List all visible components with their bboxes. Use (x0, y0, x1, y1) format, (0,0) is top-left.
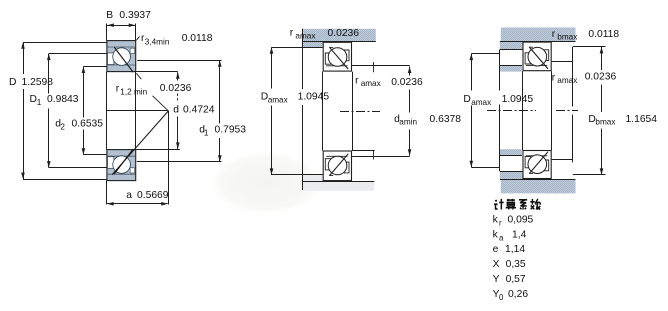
svg-text:amax: amax (268, 96, 288, 105)
svg-text:amin: amin (399, 118, 417, 127)
wire: a extension right (168, 111, 170, 205)
d1 shoulder extension lines (137, 60, 221, 62)
shaft band top (blue) (500, 28, 576, 50)
svg-text:2: 2 (60, 122, 65, 131)
contact line lower section to apex P (112, 111, 168, 175)
dimension D 1.2598 (23, 42, 25, 74)
svg-text:1: 1 (37, 98, 42, 107)
housing shoulder slivers (blue) (500, 65, 522, 71)
svg-text:0.0118: 0.0118 (588, 29, 619, 40)
bore lines extending right (136, 71, 178, 73)
bore line (bottom) extending right (352, 150, 375, 152)
dimension d_amin 0.6378 (408, 67, 412, 74)
shaft surface line (top) (500, 41, 576, 43)
wire: OD silhouette right (135, 72, 137, 150)
svg-text:0: 0 (499, 293, 504, 302)
wire: a extension left (106, 181, 108, 205)
svg-text:Y: Y (493, 274, 500, 285)
dimension d1 0.7953 (219, 60, 221, 123)
dimension d 0.4724 (176, 72, 180, 79)
svg-text:X: X (493, 259, 500, 270)
svg-text:0.3937: 0.3937 (119, 10, 151, 21)
svg-text:0.9843: 0.9843 (47, 94, 79, 105)
svg-text:amax: amax (361, 79, 381, 88)
shaft band bottom (blue) (500, 171, 576, 193)
bearing section upper (left drawing) (107, 41, 136, 73)
svg-text:B: B (106, 10, 113, 21)
housing shoulder face vertical (302, 29, 304, 89)
housing block with shoulder (top, blue) (302, 29, 376, 48)
dimension D_bmax 1.1654 (573, 46, 606, 48)
r_a fillet ticks (373, 62, 375, 72)
shaft face vertical (572, 47, 574, 107)
dimension a 0.5669 (107, 203, 168, 205)
wire: B extension left (106, 24, 108, 41)
svg-text:0.6378: 0.6378 (430, 114, 462, 125)
bearing section upper (middle drawing) (323, 42, 351, 71)
svg-text:0.0236: 0.0236 (328, 28, 360, 39)
svg-text:0.0236: 0.0236 (160, 83, 192, 94)
wire: silhouette right (right drawing) (551, 71, 553, 150)
shoulder face vertical (right drawing left side) (499, 50, 501, 91)
svg-text:r: r (499, 218, 502, 227)
dimension d2 0.6535 (83, 67, 85, 118)
svg-text:0,095: 0,095 (508, 214, 534, 225)
svg-text:0.4724: 0.4724 (183, 104, 215, 115)
svg-text:0,26: 0,26 (508, 289, 528, 300)
svg-text:d: d (173, 104, 179, 115)
shaft surface line (bottom) (500, 179, 576, 181)
shaft shoulder lines right (352, 65, 410, 67)
svg-text:r: r (552, 29, 556, 40)
label r1,2 min 0.0236 with leaders (136, 73, 141, 79)
svg-text:1: 1 (204, 129, 209, 138)
centerline (middle) (340, 111, 380, 113)
svg-text:1.1654: 1.1654 (626, 114, 658, 125)
wire: bore silhouette left (106, 72, 108, 150)
svg-text:0.7953: 0.7953 (215, 125, 247, 136)
shaft shoulder bottom edge (500, 49, 523, 51)
svg-text:bmax: bmax (557, 32, 577, 41)
wire: silhouette left (right drawing) (522, 71, 524, 150)
svg-text:0,57: 0,57 (506, 274, 526, 285)
svg-text:a: a (126, 190, 132, 201)
housing block pale (bottom) (302, 175, 374, 191)
dimension D_amax 1.0945 (right) (471, 54, 473, 91)
svg-text:r: r (290, 28, 294, 39)
bearing section lower (middle drawing) (323, 151, 351, 181)
housing bore line (bottom) (302, 181, 374, 183)
bearing section lower (left drawing) (107, 149, 136, 181)
svg-text:1,2 min: 1,2 min (120, 87, 147, 96)
svg-text:e: e (493, 244, 499, 255)
wire: OD silhouette right (middle) (352, 72, 354, 151)
svg-text:k: k (493, 214, 499, 225)
wire: bore silhouette left (middle) (322, 72, 324, 151)
wire: B extension right (135, 24, 137, 41)
svg-text:0.0118: 0.0118 (182, 33, 213, 44)
svg-text:1.0945: 1.0945 (502, 94, 534, 105)
svg-text:amax: amax (471, 98, 491, 107)
svg-text:0.5669: 0.5669 (137, 190, 169, 201)
svg-text:1.0945: 1.0945 (298, 92, 330, 103)
centerline / contact apex line (107, 110, 169, 112)
housing bore line (top) (302, 41, 376, 43)
svg-text:1,14: 1,14 (505, 244, 525, 255)
faint watermark blob (227, 191, 299, 214)
bearing section lower (right drawing) (523, 151, 551, 179)
bearing section upper (right drawing) (523, 42, 551, 71)
dimension D_amax 1.0945 (middle) (271, 47, 273, 88)
table: calculation factors (Chinese title drawn as strokes) (494, 199, 540, 210)
svg-text:amax: amax (557, 76, 577, 85)
dimension D1 0.9843 (48, 54, 50, 94)
svg-text:0.6535: 0.6535 (72, 119, 104, 130)
centerline (right drawing) (487, 110, 536, 112)
svg-text:r: r (116, 84, 120, 95)
svg-text:0.0236: 0.0236 (585, 72, 617, 83)
svg-text:D: D (9, 77, 16, 88)
svg-text:1,4: 1,4 (512, 229, 527, 240)
svg-text:k: k (493, 229, 499, 240)
svg-text:r: r (552, 72, 556, 83)
dimension B 0.3937 (107, 25, 136, 27)
svg-text:0,35: 0,35 (506, 259, 526, 270)
svg-text:0.0236: 0.0236 (391, 77, 423, 88)
svg-text:3,4min: 3,4min (145, 38, 170, 47)
svg-text:bmax: bmax (595, 118, 615, 127)
label r3,4 min 0.0118 (136, 36, 139, 40)
r_a leader lines (right drawing) (552, 61, 573, 63)
svg-text:D: D (463, 94, 470, 105)
svg-text:r: r (355, 75, 359, 86)
svg-text:amax: amax (295, 32, 315, 41)
svg-text:a: a (499, 233, 504, 242)
housing shoulder bottom edge (302, 47, 323, 49)
